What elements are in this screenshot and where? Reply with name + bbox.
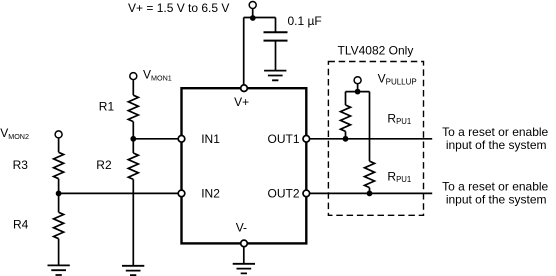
comparator U1 box: [182, 88, 307, 243]
wire VMON1 stem: [132, 80, 134, 96]
terminal VMON2: [55, 131, 62, 138]
wire node to R4: [58, 193, 60, 212]
svg-text:To a reset or enable: To a reset or enable: [442, 179, 548, 193]
wire supply stem: [252, 9, 254, 19]
resistor RPU1 second: [365, 161, 375, 187]
ground R2: [122, 266, 144, 275]
svg-text:IN2: IN2: [201, 187, 220, 201]
wire node to IN1: [133, 138, 178, 140]
wire OUT2 to system: [310, 192, 433, 194]
wire capacitor branch: [275, 18, 277, 33]
svg-text:IN1: IN1: [201, 132, 220, 146]
wire RPU1 second to OUT2: [369, 188, 371, 194]
svg-text:0.1 µF: 0.1 µF: [288, 14, 322, 28]
resistor R1: [128, 95, 138, 121]
svg-text:OUT2: OUT2: [268, 187, 300, 201]
wire RPU1 first to OUT1: [345, 131, 347, 138]
junction node VPULLUP: [355, 89, 361, 95]
resistor RPU1 first: [341, 105, 351, 131]
terminal VPULLUP: [354, 77, 361, 84]
wire capacitor to ground: [275, 41, 277, 71]
wire OUT1 to system: [310, 138, 433, 140]
wire R3 to node: [58, 179, 60, 194]
junction supply node: [250, 15, 256, 21]
svg-text:VMON1: VMON1: [143, 67, 172, 82]
pin IN1: [178, 136, 185, 143]
wire R4 to ground: [58, 239, 60, 266]
svg-text:OUT1: OUT1: [268, 132, 300, 146]
wire node to R2: [132, 139, 134, 153]
svg-text:TLV4082 Only: TLV4082 Only: [338, 44, 414, 58]
junction node IN1 divider: [130, 136, 136, 142]
resistor R2: [128, 153, 138, 179]
ground capacitor: [264, 71, 286, 81]
terminal VMON1: [130, 73, 137, 80]
wire pullup left branch: [345, 92, 347, 105]
svg-text:VMON2: VMON2: [0, 126, 29, 141]
wire V- to ground: [243, 247, 245, 264]
junction node IN2 divider: [56, 191, 62, 197]
svg-text:R1: R1: [99, 99, 115, 113]
wire pullup right branch: [369, 92, 371, 162]
svg-text:To a reset or enable: To a reset or enable: [442, 125, 548, 139]
svg-text:R4: R4: [13, 217, 29, 231]
resistor R3: [54, 152, 64, 178]
junction node OUT2 pullup: [367, 191, 373, 197]
wire R2 to ground: [132, 179, 134, 265]
terminal V+ supply: [249, 2, 256, 9]
ground V-: [233, 264, 255, 274]
svg-text:R3: R3: [13, 158, 29, 172]
wire VMON2 stem: [58, 138, 60, 152]
svg-text:RPU1: RPU1: [387, 169, 411, 184]
dashed box TLV4082 Only: [328, 62, 423, 216]
pin IN2: [178, 190, 185, 197]
ground R4: [48, 265, 70, 275]
svg-text:V-: V-: [236, 221, 247, 235]
junction node OUT1 pullup: [343, 136, 349, 142]
capacitor C1: [264, 32, 288, 40]
pin OUT1: [303, 136, 310, 143]
svg-text:R2: R2: [96, 158, 112, 172]
svg-text:input of the system: input of the system: [446, 138, 547, 152]
svg-text:V+ = 1.5 V to 6.5 V: V+ = 1.5 V to 6.5 V: [128, 1, 229, 15]
wire V+ rail down to pin: [243, 18, 245, 86]
resistor R4: [54, 212, 64, 238]
wire node to IN2: [59, 192, 179, 194]
wire R1 to node: [132, 122, 134, 139]
svg-text:VPULLUP: VPULLUP: [378, 72, 417, 87]
pin OUT2: [303, 190, 310, 197]
svg-text:input of the system: input of the system: [446, 192, 547, 206]
pin V-: [241, 240, 248, 247]
svg-text:V+: V+: [234, 95, 249, 109]
wire pullup horizontal: [346, 91, 370, 93]
wire VPULLUP stem: [357, 84, 359, 92]
pin V+: [241, 85, 248, 92]
svg-text:RPU1: RPU1: [387, 111, 411, 126]
wire supply horizontal: [244, 17, 276, 19]
